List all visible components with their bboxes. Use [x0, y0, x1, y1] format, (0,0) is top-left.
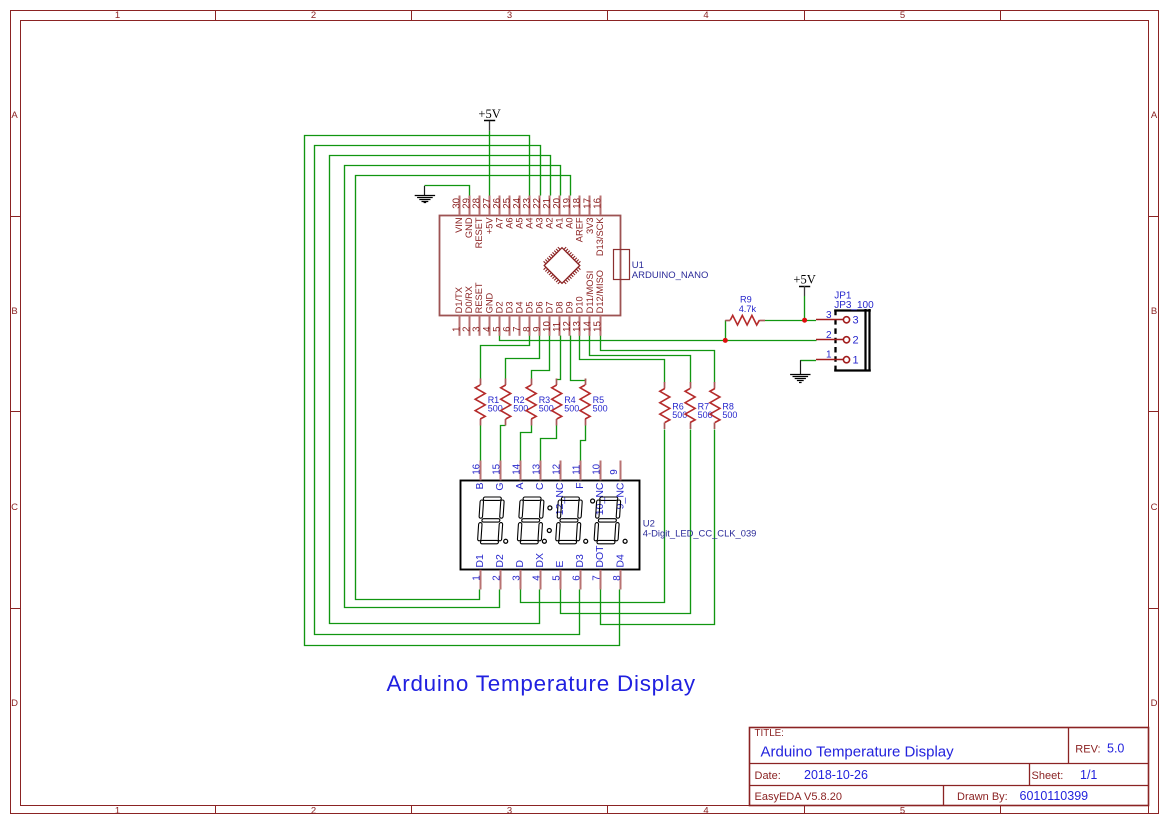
svg-text:1: 1 — [115, 806, 120, 817]
svg-text:D11/MOSI: D11/MOSI — [585, 271, 595, 314]
svg-text:7: 7 — [592, 575, 603, 580]
svg-text:500: 500 — [513, 404, 528, 414]
svg-text:A1: A1 — [555, 217, 565, 228]
svg-text:D2: D2 — [494, 302, 504, 314]
svg-text:4: 4 — [532, 575, 543, 581]
svg-text:D4: D4 — [514, 302, 524, 314]
svg-text:Date:: Date: — [755, 770, 781, 782]
svg-text:RESET: RESET — [474, 217, 484, 248]
svg-text:A2: A2 — [545, 217, 555, 228]
svg-text:1/1: 1/1 — [1080, 768, 1097, 782]
svg-text:500: 500 — [722, 410, 737, 420]
svg-text:A: A — [1151, 110, 1158, 121]
svg-text:1: 1 — [853, 355, 859, 367]
svg-text:1: 1 — [826, 350, 832, 361]
svg-text:D1: D1 — [474, 554, 486, 568]
svg-text:D4: D4 — [614, 554, 626, 568]
svg-text:500: 500 — [564, 404, 579, 414]
svg-text:4: 4 — [703, 806, 708, 817]
svg-text:2: 2 — [853, 335, 859, 347]
svg-text:15: 15 — [592, 321, 603, 332]
svg-text:4.7k: 4.7k — [739, 304, 757, 314]
svg-text:3: 3 — [507, 806, 512, 817]
svg-text:+5V: +5V — [484, 217, 494, 235]
svg-text:10: 10 — [592, 463, 603, 474]
svg-text:D5: D5 — [524, 302, 534, 314]
svg-text:D8: D8 — [555, 302, 565, 314]
svg-text:3: 3 — [853, 315, 859, 327]
svg-text:A4: A4 — [524, 217, 534, 228]
svg-text:3: 3 — [507, 10, 512, 21]
svg-text:C: C — [534, 482, 546, 490]
svg-text:5: 5 — [900, 10, 905, 21]
svg-text:500: 500 — [488, 404, 503, 414]
svg-text:D7: D7 — [545, 302, 555, 314]
svg-text:DX: DX — [534, 553, 546, 568]
svg-text:9: 9 — [609, 469, 620, 474]
svg-text:2: 2 — [311, 806, 316, 817]
svg-text:GND: GND — [484, 292, 494, 313]
svg-text:16: 16 — [592, 198, 603, 209]
svg-text:2: 2 — [491, 575, 502, 580]
svg-text:VIN: VIN — [454, 217, 464, 233]
svg-text:D10: D10 — [575, 296, 585, 313]
svg-text:AREF: AREF — [575, 217, 585, 242]
svg-text:D12/MISO: D12/MISO — [595, 270, 605, 313]
svg-text:3V3: 3V3 — [585, 217, 595, 234]
svg-text:D0/RX: D0/RX — [464, 286, 474, 313]
svg-text:A: A — [514, 483, 526, 490]
svg-text:8: 8 — [612, 575, 623, 581]
svg-text:500: 500 — [593, 404, 608, 414]
svg-text:D: D — [11, 698, 18, 709]
svg-text:A6: A6 — [504, 217, 514, 228]
svg-text:2: 2 — [826, 330, 832, 341]
svg-text:F: F — [574, 483, 586, 489]
svg-text:A3: A3 — [535, 217, 545, 228]
svg-text:12_NC: 12_NC — [554, 482, 566, 515]
svg-text:+5V: +5V — [793, 272, 815, 286]
svg-text:3: 3 — [512, 575, 523, 581]
svg-text:2018-10-26: 2018-10-26 — [804, 768, 868, 782]
svg-text:Sheet:: Sheet: — [1032, 770, 1064, 782]
svg-text:16: 16 — [471, 463, 482, 474]
svg-text:1: 1 — [115, 10, 120, 21]
svg-text:G: G — [494, 483, 506, 491]
svg-text:D3: D3 — [504, 302, 514, 314]
svg-text:5: 5 — [552, 575, 563, 581]
svg-text:DOT: DOT — [594, 545, 606, 568]
svg-text:D1/TX: D1/TX — [454, 287, 464, 313]
svg-text:15: 15 — [491, 463, 502, 474]
svg-text:D2: D2 — [494, 554, 506, 568]
svg-text:ARDUINO_NANO: ARDUINO_NANO — [632, 270, 709, 281]
svg-text:1: 1 — [471, 575, 482, 580]
svg-text:A7: A7 — [494, 217, 504, 228]
svg-text:RESET: RESET — [474, 282, 484, 313]
svg-text:+5V: +5V — [478, 107, 500, 121]
svg-text:4-Digit_LED_CC_CLK_039: 4-Digit_LED_CC_CLK_039 — [643, 528, 757, 539]
svg-text:13: 13 — [532, 463, 543, 474]
svg-text:Drawn By:: Drawn By: — [957, 791, 1008, 803]
svg-text:D6: D6 — [535, 302, 545, 314]
svg-text:B: B — [474, 483, 486, 490]
svg-text:D: D — [1151, 698, 1158, 709]
svg-text:500: 500 — [539, 404, 554, 414]
svg-text:Arduino Temperature Display: Arduino Temperature Display — [387, 671, 696, 696]
svg-text:B: B — [11, 306, 17, 317]
svg-text:5: 5 — [900, 806, 905, 817]
svg-text:TITLE:: TITLE: — [755, 728, 784, 739]
svg-text:A: A — [11, 110, 18, 121]
svg-text:C: C — [11, 502, 18, 513]
svg-text:A0: A0 — [565, 217, 575, 228]
svg-text:12: 12 — [552, 464, 563, 475]
svg-text:A5: A5 — [514, 217, 524, 228]
svg-text:EasyEDA V5.8.20: EasyEDA V5.8.20 — [755, 791, 842, 803]
svg-text:11: 11 — [572, 465, 583, 475]
svg-text:5.0: 5.0 — [1107, 742, 1124, 756]
svg-text:GND: GND — [464, 217, 474, 238]
svg-text:6: 6 — [572, 575, 583, 581]
svg-text:D13/SCK: D13/SCK — [595, 217, 605, 257]
svg-text:D3: D3 — [574, 554, 586, 568]
svg-text:3: 3 — [826, 310, 832, 321]
svg-text:6010110399: 6010110399 — [1020, 789, 1089, 803]
svg-text:Arduino Temperature Display: Arduino Temperature Display — [761, 744, 955, 761]
svg-text:REV:: REV: — [1075, 744, 1100, 756]
svg-text:4: 4 — [703, 10, 708, 21]
svg-text:B: B — [1151, 306, 1157, 317]
svg-text:JP3_100: JP3_100 — [834, 300, 874, 311]
svg-text:D: D — [514, 560, 526, 568]
svg-text:C: C — [1151, 502, 1158, 513]
svg-text:D9: D9 — [565, 302, 575, 314]
svg-text:14: 14 — [512, 463, 523, 474]
svg-text:E: E — [554, 561, 566, 568]
svg-text:2: 2 — [311, 10, 316, 21]
